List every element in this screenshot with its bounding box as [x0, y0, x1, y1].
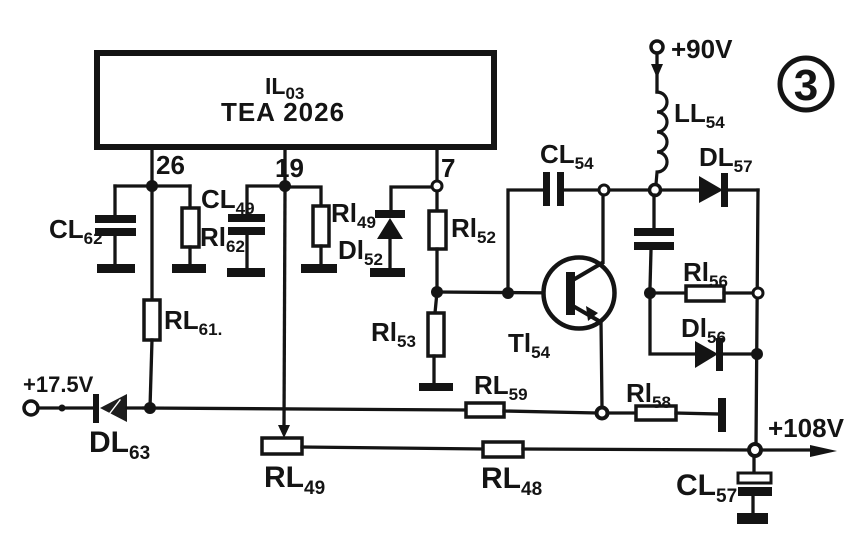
junction cap/RL56/DL56 node: [644, 287, 656, 299]
pin 7 stub wire: [435, 148, 438, 181]
wiper arrow of RL49 potentiometer: [278, 425, 290, 438]
ground under RL53: [419, 383, 453, 391]
transistor TL54: [544, 258, 615, 329]
capacitor CL49: [228, 214, 265, 268]
junction small dot on wire: [59, 405, 66, 412]
resistor RL52: [429, 211, 446, 292]
svg-text:26: 26: [156, 150, 185, 180]
wire pin19 to CL49: [247, 186, 285, 215]
node +108V junction (open circle): [749, 444, 761, 456]
wire emitter down: [601, 322, 602, 407]
wire collector vertical: [601, 195, 604, 262]
node collector top (open circle): [599, 185, 609, 195]
wire +90V down with arrow: [651, 53, 663, 92]
wire RL58 to terminal bar: [676, 413, 719, 414]
pin 19 stub wire: [283, 148, 286, 186]
ground under DL52: [370, 268, 405, 277]
svg-text:19: 19: [275, 153, 304, 183]
ground under RL62: [172, 264, 206, 273]
wire pot to RL48: [302, 447, 483, 449]
capacitor CL57 (electrolytic): [738, 456, 772, 513]
diode DL57: [699, 173, 758, 207]
IC U1 IL03 TEA2026 box: [97, 53, 494, 147]
wire +108V arrow: [761, 445, 837, 457]
wire pin26 down to RL61: [150, 186, 153, 300]
wire node to DL57: [661, 188, 699, 191]
wire right rail: [756, 190, 758, 444]
capacitor CL62: [95, 186, 136, 264]
wire DL52 top to pin 7 node: [391, 187, 437, 211]
resistor RL56: [655, 286, 752, 301]
resistor RL48: [483, 442, 523, 457]
ground under CL57: [737, 513, 768, 524]
wire CL54 to collector node: [564, 188, 599, 191]
wire terminal to DL63: [38, 406, 94, 409]
capacitor CL54: [543, 172, 564, 206]
svg-text:7: 7: [441, 153, 455, 183]
junction pin 19 node: [279, 180, 291, 192]
node pin 7 (open circle): [432, 181, 442, 191]
resistor RL61: [144, 300, 160, 408]
wire pin19 down to potentiometer wiper: [284, 192, 285, 426]
wire down to DL56: [650, 298, 695, 354]
node LL54 bottom (open circle): [650, 185, 661, 196]
wire pin26 horizontal bus: [115, 184, 190, 187]
wire CL54 branch: [508, 190, 544, 293]
resistor RL49 (vertical, at pin 19): [313, 206, 329, 264]
wire RL48 to +108V rail: [523, 449, 750, 450]
resistor RL59: [466, 403, 504, 417]
junction CL54 branch on base wire: [502, 287, 514, 299]
resistor RL58: [636, 406, 676, 420]
wire emitter node to RL58: [608, 411, 636, 414]
svg-text:3: 3: [794, 61, 818, 110]
ground under RL49 resistor: [301, 264, 337, 273]
potentiometer RL49 body: [262, 438, 302, 454]
sheet number marker: circled 3: [780, 58, 832, 110]
diode DL63: [93, 394, 144, 423]
wire pin7 node to RL52: [435, 191, 438, 211]
wire top bus to LL54 node: [609, 188, 650, 191]
junction DL56 right rail: [751, 348, 763, 360]
wire pin19 to RL49 resistor: [285, 187, 321, 206]
terminal +17.5V (open circle): [24, 401, 38, 415]
wire RL59 to emitter node: [504, 411, 596, 413]
diode DL56: [695, 338, 751, 371]
pin 26 stub wire: [150, 148, 153, 186]
wire bottom bus left: [144, 408, 466, 410]
svg-text:TEA 2026: TEA 2026: [221, 97, 345, 127]
wire base (node to transistor base): [437, 292, 565, 293]
svg-text:+90V: +90V: [671, 34, 733, 64]
node RL56 right (open circle): [753, 288, 763, 298]
inductor LL54: [656, 92, 667, 184]
node emitter/bottom bus (open circle): [597, 408, 608, 419]
terminal bar (end plate): [718, 398, 726, 432]
junction RL61/bottom bus: [144, 402, 156, 414]
svg-text:+108V: +108V: [768, 413, 845, 443]
capacitor (unlabeled) below LL54 node: [634, 195, 674, 288]
resistor RL62: [182, 186, 199, 264]
terminal +90V (open circle): [651, 41, 663, 53]
svg-text:+17.5V: +17.5V: [23, 372, 94, 397]
junction RL52/RL53/base node: [431, 286, 443, 298]
ground under CL49: [227, 268, 265, 277]
junction pin 26 node: [146, 180, 158, 192]
ground under CL62: [97, 264, 135, 273]
resistor RL53: [428, 292, 444, 383]
diode DL52: [375, 210, 405, 268]
